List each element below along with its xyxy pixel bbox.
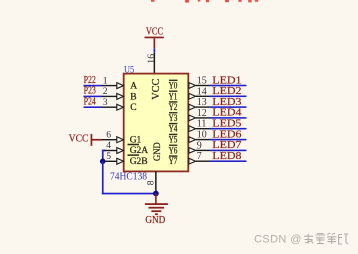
- svg-text:GND: GND: [152, 142, 162, 161]
- svg-text:14: 14: [197, 86, 207, 97]
- pin 8 (GND): [145, 171, 156, 193]
- wire Y0 net: [210, 85, 247, 87]
- svg-text:CSDN @: CSDN @: [254, 234, 302, 246]
- power VCC (top): [145, 27, 164, 49]
- svg-text:11: 11: [197, 119, 207, 130]
- wire Y2 net: [210, 106, 247, 108]
- svg-text:B: B: [130, 92, 136, 102]
- pin 5 G2B : pin + arrow: [104, 158, 124, 164]
- wire Y3 net: [210, 117, 247, 119]
- svg-text:VCC: VCC: [69, 134, 89, 145]
- svg-text:Y4: Y4: [169, 125, 178, 135]
- wire VCC to pin 16: [154, 48, 156, 53]
- pin 3 C : wire + pin + arrow: [84, 104, 124, 110]
- wire G2A L-shape: [102, 150, 106, 162]
- ground GND symbol: [145, 194, 168, 226]
- svg-text:P22: P22: [84, 75, 96, 86]
- wire Y6 net: [210, 150, 247, 152]
- node junction at G2A/G2B wire: [100, 159, 106, 165]
- pin 6 G1 : pin + arrow: [102, 137, 124, 143]
- pin 7 Y7 : pin + arrow: [189, 158, 210, 164]
- svg-text:8: 8: [145, 180, 156, 185]
- svg-text:P24: P24: [84, 96, 97, 107]
- svg-text:VCC: VCC: [146, 27, 163, 38]
- svg-text:9: 9: [197, 140, 202, 151]
- pin 14 Y1 : pin + arrow: [189, 93, 210, 99]
- pin 4 G2A : pin + arrow: [104, 148, 124, 154]
- svg-text:3: 3: [103, 97, 108, 108]
- watermark chinese glyphs 我爱笔记 (approximated strokes): [304, 233, 349, 244]
- title text (red heading cut off at top edge): [151, 0, 258, 3]
- pin name G2B with overline bar: [128, 155, 148, 167]
- pin 11 Y4 : pin + arrow: [189, 126, 210, 132]
- node junction at ground: [153, 191, 159, 197]
- svg-text:VCC: VCC: [151, 79, 162, 100]
- svg-text:Y7: Y7: [169, 157, 178, 167]
- pin 15 Y0 : pin + arrow: [189, 83, 210, 89]
- pin names Y0..Y7 with overlines: [169, 80, 178, 167]
- svg-text:2: 2: [103, 86, 108, 97]
- svg-text:Y5: Y5: [169, 136, 178, 146]
- svg-text:7: 7: [197, 151, 202, 162]
- IC U5 74HC138 decoder body: [124, 74, 189, 172]
- svg-text:G2B: G2B: [130, 157, 148, 167]
- svg-text:6: 6: [106, 129, 111, 140]
- svg-text:GND: GND: [145, 215, 165, 226]
- pin 1 A : wire + pin + arrow: [84, 83, 124, 89]
- pin 12 Y3 : pin + arrow: [189, 115, 210, 121]
- watermark CSDN @我爱笔记: [254, 234, 302, 246]
- svg-text:U5: U5: [124, 65, 134, 76]
- wire Y5 net: [210, 139, 247, 141]
- svg-text:12: 12: [197, 108, 207, 119]
- svg-text:C: C: [130, 103, 136, 113]
- svg-text:Y2: Y2: [169, 103, 178, 113]
- pin 9 Y6 : pin + arrow: [189, 148, 210, 154]
- svg-text:Y0: Y0: [169, 82, 178, 92]
- svg-text:Y3: Y3: [169, 114, 178, 124]
- svg-text:LED8: LED8: [212, 150, 242, 162]
- wire Y4 net: [210, 128, 247, 130]
- svg-text:Y6: Y6: [169, 146, 178, 156]
- wire down-left to ground junction: [102, 161, 156, 194]
- wire Y1 net: [210, 96, 247, 98]
- pin 10 Y5 : pin + arrow: [189, 137, 210, 143]
- wire Y7 net: [210, 160, 247, 162]
- svg-text:13: 13: [197, 97, 207, 108]
- power VCC (left): [69, 134, 103, 146]
- svg-text:4: 4: [106, 140, 111, 151]
- pin 16 (VCC): [146, 53, 157, 74]
- svg-text:15: 15: [197, 76, 207, 87]
- svg-text:A: A: [130, 82, 137, 92]
- svg-text:10: 10: [197, 130, 207, 141]
- svg-text:Y1: Y1: [169, 92, 178, 102]
- pin 2 B : wire + pin + arrow: [84, 93, 124, 99]
- svg-text:74HC138: 74HC138: [110, 171, 147, 182]
- pin name G2A with overline bar: [128, 144, 149, 156]
- svg-text:P23: P23: [84, 86, 96, 97]
- pin 13 Y2 : pin + arrow: [189, 104, 210, 110]
- svg-text:1: 1: [103, 75, 108, 86]
- svg-text:5: 5: [106, 151, 111, 162]
- svg-text:16: 16: [146, 54, 157, 64]
